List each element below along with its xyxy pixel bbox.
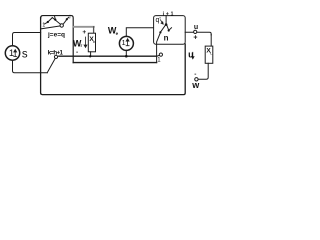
svg-text:u: u [188, 50, 194, 60]
rotary contact 1 line [48, 18, 53, 22]
source s arrow [14, 50, 17, 57]
svg-text:w: w [191, 80, 200, 90]
contact k circle [54, 55, 57, 58]
switch right contact dot [168, 29, 170, 31]
bus rectangle top line (extends left to contact k) [59, 55, 157, 57]
source We circle [119, 36, 133, 50]
svg-text:n: n [164, 34, 169, 43]
switch right contact line [167, 26, 168, 30]
rotary hub [60, 24, 63, 27]
W_r voltage arrow [84, 37, 87, 47]
wire source s bottom [13, 60, 48, 72]
q' actuation arrow [160, 20, 163, 24]
wire resistor bottom [90, 52, 92, 56]
svg-text:1: 1 [42, 23, 45, 29]
source We arrow [126, 39, 129, 46]
switch hub dot [165, 23, 168, 26]
junction dot We-bus [125, 55, 128, 58]
svg-text:j=e=q: j=e=q [47, 31, 65, 38]
svg-text:-: - [194, 71, 196, 78]
wire We bottom [125, 50, 127, 56]
svg-text:r: r [81, 43, 83, 48]
switch k arm diagonal [47, 58, 55, 72]
resistor X_b [88, 33, 95, 52]
rotary spoke 3 [63, 20, 66, 25]
svg-text:1: 1 [122, 38, 126, 47]
svg-text:j: j [69, 13, 71, 18]
svg-text:1: 1 [9, 48, 14, 59]
wire outer outline: left edge, bottom, right riser [41, 18, 186, 95]
wire resistor top drop [93, 27, 95, 33]
switch left contact dot [159, 31, 161, 33]
rotary feed diagonal [41, 26, 60, 29]
wire load drop [210, 35, 212, 47]
switch box q' [154, 16, 186, 45]
rotary contact 3 dot [66, 18, 68, 20]
terminal u circle [194, 30, 197, 33]
switch left contact line [161, 26, 165, 32]
rotary contact 2 dot [54, 19, 56, 21]
switch exit wire [157, 33, 161, 56]
selector box top (rotary box) [41, 16, 74, 28]
switch common wire from box top [165, 16, 167, 24]
svg-text:q': q' [156, 17, 161, 24]
wire gray top bus [73, 26, 94, 28]
bus rectangle right edge [156, 56, 158, 62]
svg-text:-: - [76, 49, 78, 56]
wire port top [185, 32, 211, 35]
bus rectangle bottom line [73, 62, 156, 64]
junction dot resistor-bus [89, 55, 91, 57]
wire stub to terminal 1 [157, 54, 160, 57]
U voltage arrow [192, 52, 194, 59]
wire We top [126, 28, 153, 37]
svg-text:+: + [193, 35, 197, 42]
terminal 1 circle [159, 53, 162, 56]
svg-text:k=h+1: k=h+1 [48, 50, 64, 57]
svg-text:u: u [194, 24, 198, 31]
rotary contact 1 dot [47, 21, 49, 23]
switch right contact stub [169, 28, 171, 30]
wire load bottom [198, 63, 208, 79]
rotary arm to apex [52, 18, 60, 25]
rotary contact 1 stub [45, 23, 47, 24]
load X_L box [205, 46, 213, 63]
source s circle [5, 46, 19, 60]
wire W_r vertical / bus left edge [72, 28, 74, 63]
rotary contact 3 stub [68, 17, 69, 18]
svg-text:+: + [82, 29, 86, 36]
terminal w circle [195, 78, 198, 81]
svg-text:s: s [22, 49, 28, 61]
rotary contact 2 stub [54, 16, 57, 18]
wire source s top [13, 33, 41, 46]
